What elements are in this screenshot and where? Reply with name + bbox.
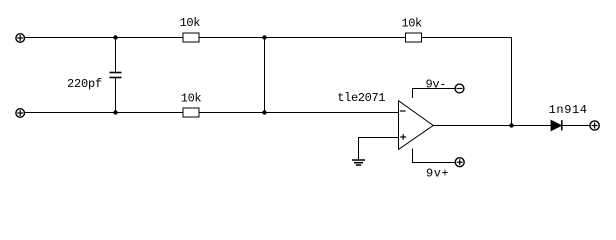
- op-amp U1 tle2071 (triangle body): [399, 101, 434, 150]
- resistor 10k (feedback, box): [406, 33, 422, 42]
- wire: positive supply pin stub (bottom of op-amp): [412, 149, 414, 163]
- capacitor 220pf bottom lead: [115, 78, 117, 113]
- svg-text:9v-: 9v-: [426, 78, 447, 92]
- capacitor 220pf plates: [110, 73, 122, 78]
- junction: jumper to bottom rail: [262, 110, 266, 114]
- capacitor 220pf vertical branch: top lead: [115, 38, 117, 73]
- svg-text:10k: 10k: [180, 16, 201, 30]
- svg-text:220pf: 220pf: [67, 77, 102, 91]
- resistor 10k (top left, box): [183, 33, 199, 42]
- wire: ground drop: [358, 137, 360, 160]
- wire: negative supply pin stub (top of op-amp): [412, 89, 414, 99]
- wire: op-amp output to diode anode: [433, 125, 551, 127]
- op-amp non-inverting input marker (+): [400, 134, 406, 140]
- junction: jumper to top rail: [262, 35, 266, 39]
- junction: capacitor to top rail: [113, 35, 117, 39]
- junction: capacitor to bottom rail: [113, 110, 117, 114]
- output terminal OUT (circle with plus): [590, 121, 599, 130]
- power terminal 9v- (circle with minus): [455, 84, 464, 93]
- svg-text:10k: 10k: [401, 17, 422, 31]
- wire: top rail from R1 to R2: [199, 37, 406, 39]
- wire: bottom rail from R3 to op-amp inverting input: [199, 112, 399, 114]
- svg-text:10k: 10k: [181, 92, 202, 106]
- junction: feedback ties to output wire: [509, 123, 513, 127]
- wire: diode cathode to output terminal: [562, 125, 590, 127]
- wire: summing jumper joining top and bottom rails: [264, 38, 266, 113]
- input terminal IN2 (bottom left, circle with plus): [16, 109, 25, 118]
- svg-text:tle2071: tle2071: [337, 91, 385, 105]
- input terminal IN1 (top left, circle with plus): [16, 34, 25, 43]
- wire: negative supply horizontal to terminal: [412, 88, 455, 90]
- op-amp inverting input marker (-): [400, 110, 406, 112]
- diode D1 cathode bar: [561, 120, 563, 130]
- wire: bottom rail from IN2 to R3: [25, 112, 184, 114]
- wire: feedback vertical drop to output node: [511, 37, 513, 126]
- diode D1 1n914 (filled triangle): [551, 120, 562, 130]
- wire: top rail from IN1 to R1: [25, 37, 184, 39]
- ground symbol: [352, 160, 365, 165]
- svg-text:1n914: 1n914: [549, 103, 588, 117]
- wire: positive supply horizontal to terminal: [412, 162, 455, 164]
- wire: non-inverting input lead to ground branch: [359, 137, 399, 139]
- resistor 10k (bottom, box): [183, 108, 199, 117]
- svg-text:9v+: 9v+: [426, 167, 449, 181]
- wire: top rail from R2 to feedback corner: [422, 37, 513, 39]
- power terminal 9v+ (circle with plus): [455, 158, 464, 167]
